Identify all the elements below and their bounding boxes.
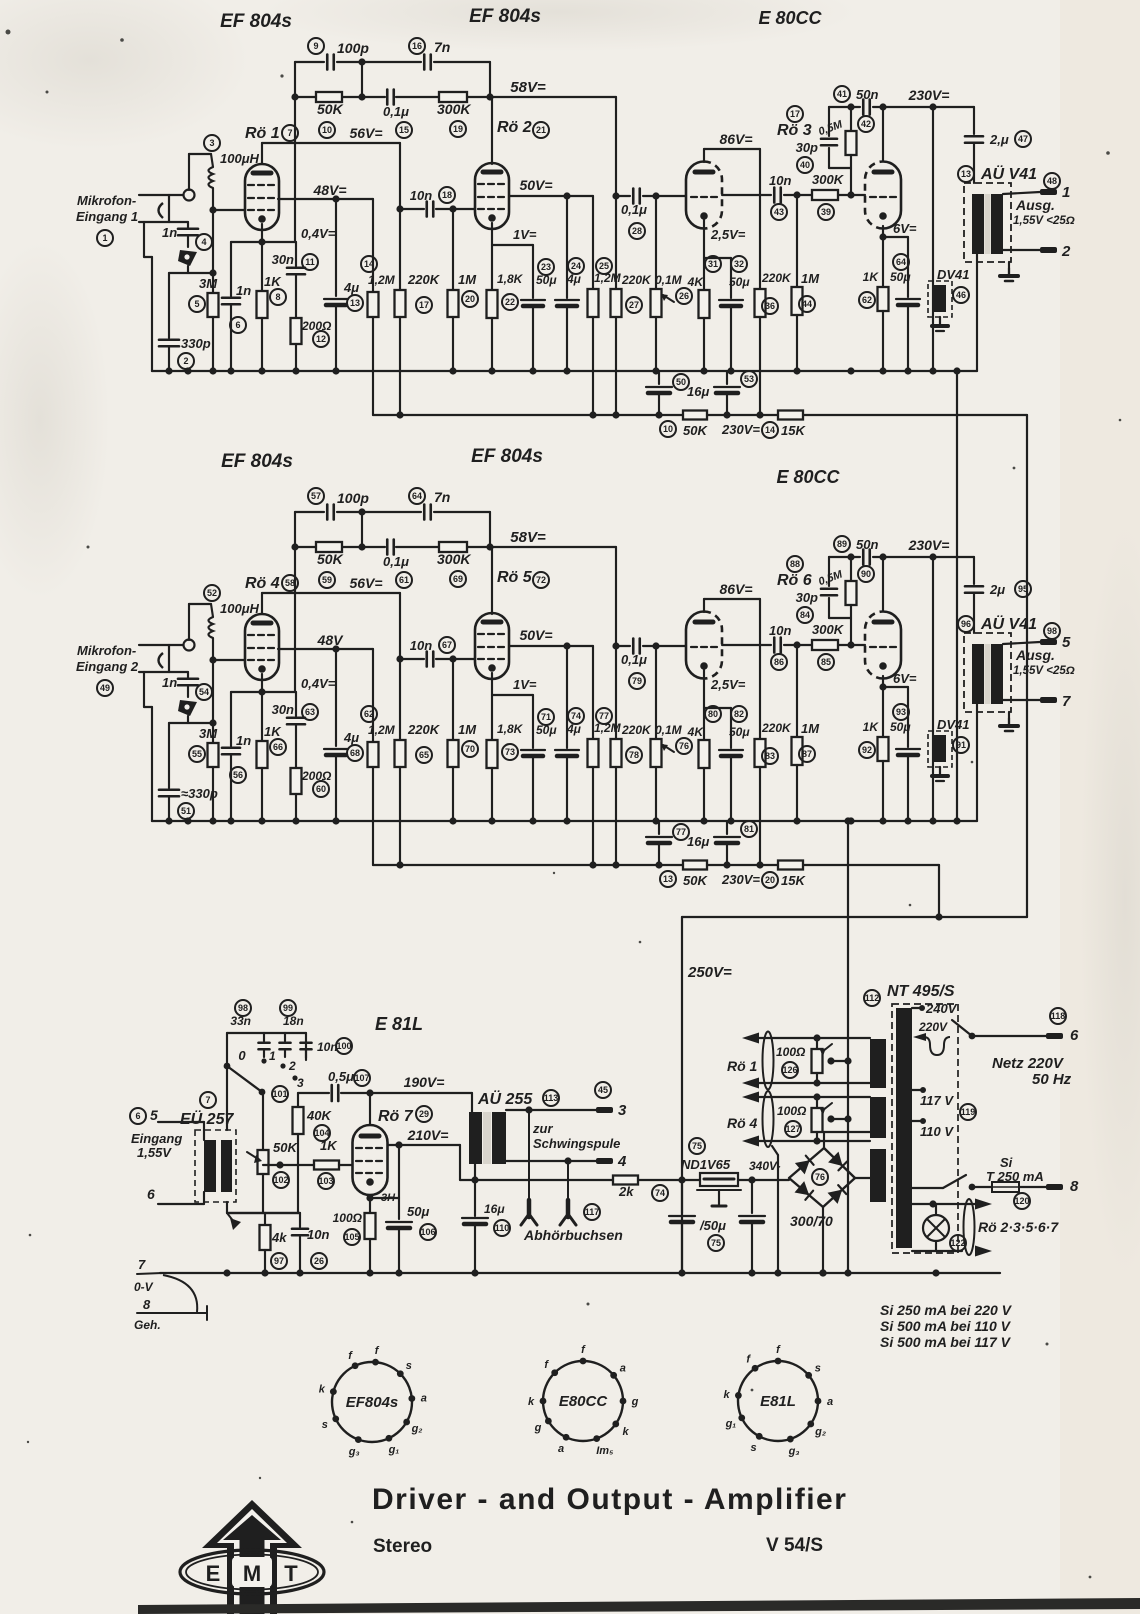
svg-text:117: 117	[585, 1207, 600, 1217]
node 14 circled ch1	[361, 256, 377, 272]
node cathode-b	[879, 233, 886, 240]
svg-text:76: 76	[679, 741, 689, 751]
svg-text:1M: 1M	[458, 722, 477, 737]
svg-text:AÜ V41: AÜ V41	[980, 614, 1037, 633]
svg-text:7: 7	[205, 1095, 210, 1105]
svg-text:48: 48	[1047, 176, 1057, 186]
choke ND1V65	[700, 1173, 738, 1186]
node 13t circled ch2	[958, 616, 974, 632]
node plate 230V	[879, 553, 886, 560]
svg-text:64: 64	[896, 257, 906, 267]
node 4u junction	[563, 642, 570, 649]
svg-text:21: 21	[536, 125, 546, 135]
svg-text:52: 52	[207, 588, 217, 598]
pilot lamp	[923, 1215, 949, 1241]
svg-text:g: g	[631, 1396, 639, 1408]
node 8 circled ch2	[270, 739, 286, 755]
node 1M junction	[449, 205, 456, 212]
capacitor 1n mic ch1	[187, 222, 189, 228]
capacitor 10n interstage Ro3	[722, 194, 771, 196]
wire 230V line ch1	[829, 106, 860, 108]
svg-text:40: 40	[800, 160, 810, 170]
capacitor 50u cathode Ro2	[532, 245, 534, 298]
svg-text:54: 54	[199, 687, 209, 697]
wire 210V line	[388, 1144, 460, 1146]
svg-text:4: 4	[201, 237, 206, 247]
svg-text:Rö 1: Rö 1	[727, 1058, 758, 1074]
svg-text:10n: 10n	[317, 1040, 338, 1054]
resistor 1K cathode Ro1	[257, 291, 268, 318]
node 12 circled ch1	[313, 331, 329, 347]
svg-text:30n: 30n	[272, 252, 294, 267]
transformer AU255 monitor output	[469, 1112, 482, 1164]
capacitor 0.1u feedback ch1	[386, 90, 389, 105]
svg-text:Ausg.: Ausg.	[1015, 197, 1055, 213]
svg-text:89: 89	[837, 539, 847, 549]
svg-text:112: 112	[865, 993, 880, 1003]
wire 190V corner	[471, 1093, 473, 1112]
wire input upper	[158, 1121, 204, 1123]
svg-text:220K: 220K	[407, 272, 441, 287]
label tube Ro6	[787, 556, 803, 572]
resistor 300K feedback ch2	[439, 542, 467, 552]
svg-text:70: 70	[465, 744, 475, 754]
node pot junction	[652, 192, 659, 199]
svg-text:74: 74	[571, 711, 581, 721]
node 40 circled ch2	[797, 607, 813, 623]
node 0.1u tap	[612, 642, 619, 649]
pinout E81L	[738, 1361, 818, 1441]
node 106 circled	[420, 1224, 436, 1240]
wire cathode Ro1	[261, 224, 263, 291]
node 9 circled ch1	[308, 38, 324, 54]
tap 117V	[912, 1089, 923, 1091]
svg-text:M: M	[243, 1561, 261, 1586]
wire cathode first triode Ro6	[703, 670, 705, 740]
svg-text:41: 41	[837, 89, 847, 99]
svg-text:58V=: 58V=	[510, 529, 546, 546]
capacitor 16u smoothing b ch1	[726, 371, 728, 384]
svg-text:2k: 2k	[618, 1184, 634, 1199]
node 1M-b junction	[793, 191, 800, 198]
node 100 circled	[336, 1038, 352, 1054]
resistor 220K ch1 b	[611, 289, 622, 317]
svg-text:100μH: 100μH	[220, 601, 260, 616]
wire mic connector bar ch2	[168, 645, 170, 672]
svg-text:Stereo: Stereo	[373, 1536, 432, 1557]
svg-text:26: 26	[679, 291, 689, 301]
rectifier DV41 ch2	[928, 731, 952, 767]
svg-text:1M: 1M	[458, 272, 477, 287]
svg-text:/50μ: /50μ	[699, 1218, 726, 1233]
logo EMT letters	[232, 1557, 272, 1587]
node 20 circled ch2	[462, 741, 478, 757]
svg-text:220K: 220K	[407, 722, 441, 737]
svg-text:300K: 300K	[437, 101, 471, 117]
svg-text:7: 7	[138, 1257, 146, 1272]
svg-text:Rö 5: Rö 5	[497, 569, 533, 586]
node 6 circled ch1	[230, 317, 246, 333]
logo EMT ellipse	[180, 1550, 324, 1594]
node 13 circled ch2	[347, 745, 363, 761]
svg-text:100p: 100p	[337, 490, 369, 506]
svg-text:300/70: 300/70	[790, 1213, 833, 1229]
svg-text:3: 3	[618, 1102, 627, 1119]
svg-text:30n: 30n	[272, 702, 294, 717]
wire 0.4V line ch2	[231, 691, 296, 693]
svg-text:63: 63	[305, 707, 315, 717]
svg-text:40K: 40K	[306, 1108, 332, 1123]
svg-text:g₂: g₂	[814, 1426, 826, 1438]
wire grid to tube Ro1	[213, 209, 245, 211]
ground arrow EU257	[230, 1218, 241, 1230]
svg-text:27: 27	[629, 300, 639, 310]
capacitor 0.1u coupling ch1	[616, 195, 630, 197]
resistor 220K ch2 a	[395, 740, 406, 767]
resistor 1K grid monitor	[314, 1161, 339, 1170]
svg-text:220K: 220K	[761, 721, 792, 735]
svg-text:39: 39	[821, 207, 831, 217]
node 24 circled ch1	[568, 258, 584, 274]
svg-text:50μ: 50μ	[890, 720, 911, 734]
svg-text:72: 72	[536, 575, 546, 585]
potentiometer 0.1M ch1	[655, 196, 657, 289]
node 113 circled	[960, 1104, 976, 1120]
svg-text:86: 86	[774, 657, 784, 667]
node ground drop top	[844, 817, 851, 824]
capacitor 50u cathode b Ro6	[907, 687, 909, 747]
wire grid chain Ro4	[212, 638, 214, 743]
svg-text:EF 804s: EF 804s	[471, 446, 543, 467]
svg-text:67: 67	[442, 640, 452, 650]
node 44t circled ch1	[1044, 173, 1060, 189]
svg-text:85: 85	[821, 657, 831, 667]
node 3 circled ch2	[204, 585, 220, 601]
svg-text:88: 88	[790, 559, 800, 569]
svg-text:340V-: 340V-	[749, 1159, 781, 1173]
svg-text:1,2M: 1,2M	[368, 723, 396, 737]
node 5 circled ch1	[189, 296, 205, 312]
resistor 1.8K cathode Ro5	[487, 740, 498, 768]
svg-text:118: 118	[1051, 1011, 1066, 1021]
node 26 circled ch1	[676, 288, 692, 304]
resistor 200ohm ch2	[291, 768, 302, 794]
svg-text:69: 69	[453, 574, 463, 584]
wire grid chain Ro1	[212, 188, 214, 293]
svg-text:24: 24	[571, 261, 581, 271]
node grid lower Ro1	[209, 269, 216, 276]
wire secondary out upper AUV41-2	[1003, 642, 1040, 644]
svg-text:47: 47	[1018, 134, 1028, 144]
resistor 50K supply ch1	[683, 411, 707, 420]
resistor 220K ch1 a	[395, 290, 406, 317]
resistor 200ohm ch1	[291, 318, 302, 344]
svg-text:48V=: 48V=	[312, 182, 346, 198]
wire DV41 feed ch2	[932, 557, 934, 821]
svg-text:68: 68	[350, 748, 360, 758]
wire 58V rail ch2	[295, 546, 385, 548]
node 7 circled EU257	[200, 1092, 216, 1108]
svg-text:17: 17	[419, 300, 429, 310]
svg-text:100Ω: 100Ω	[776, 1045, 806, 1059]
heater out arrow top	[975, 1199, 992, 1210]
svg-text:50μ: 50μ	[890, 270, 911, 284]
svg-text:1V=: 1V=	[513, 227, 537, 242]
node 20 circled ch1	[462, 291, 478, 307]
svg-text:E81L: E81L	[760, 1393, 796, 1410]
node 41 circled ch2	[834, 536, 850, 552]
svg-text:0,4V=: 0,4V=	[301, 226, 336, 241]
node 48V junction	[332, 195, 339, 202]
svg-text:56V=: 56V=	[349, 575, 382, 591]
svg-text:NT 495/S: NT 495/S	[887, 983, 955, 1000]
svg-text:50K: 50K	[317, 551, 344, 567]
bus junction dots ch1	[165, 367, 172, 374]
resistor 15K supply ch2	[778, 861, 803, 870]
node 127 circled	[785, 1121, 801, 1137]
svg-text:107: 107	[354, 1073, 369, 1083]
node 13 circled ch1	[347, 295, 363, 311]
svg-text:100: 100	[336, 1041, 351, 1051]
capacitor 50u psu a	[681, 1180, 683, 1213]
svg-text:Rö 2: Rö 2	[497, 119, 532, 136]
wire cathode Ro7	[369, 1195, 371, 1213]
resistor 2k monitor feed	[475, 1179, 613, 1181]
svg-text:50: 50	[676, 377, 686, 387]
wire primary bottom tap	[912, 1187, 943, 1189]
bottom scan bar	[138, 1598, 1140, 1614]
node grid-b	[847, 641, 854, 648]
svg-text:V 54/S: V 54/S	[766, 1535, 823, 1556]
svg-text:76: 76	[815, 1172, 825, 1182]
node 117 circled	[584, 1204, 600, 1220]
wire mic input stub lower ch1	[139, 221, 188, 223]
wire cathode Ro4	[261, 674, 263, 741]
node 1 circled ch1	[97, 230, 113, 246]
node 36 circled ch2	[762, 748, 778, 764]
svg-text:Si 250 mA bei 220 V: Si 250 mA bei 220 V	[880, 1302, 1013, 1318]
svg-text:10n: 10n	[769, 173, 791, 188]
svg-text:98: 98	[1047, 626, 1057, 636]
wire 100p to rail	[361, 62, 363, 97]
node rail junctions	[291, 93, 298, 100]
svg-text:Driver - and Output - Amplifie: Driver - and Output - Amplifier	[372, 1483, 847, 1516]
node 110 circled	[494, 1220, 510, 1236]
heater twisted pair Ro1	[763, 1032, 774, 1090]
svg-text:100Ω: 100Ω	[777, 1104, 807, 1118]
wire plate 86V Ro3	[703, 149, 705, 162]
capacitor 10n switch	[301, 1041, 312, 1044]
wire cathode Ro2	[491, 223, 493, 290]
wire 56V down ch1	[399, 143, 401, 290]
svg-text:6: 6	[1070, 1027, 1079, 1044]
resistor 3M grid leak ch1	[208, 293, 219, 317]
svg-text:220V: 220V	[918, 1020, 948, 1034]
node 27 circled ch1	[626, 297, 642, 313]
capacitor 50n ch2	[862, 550, 865, 565]
node 36 circled ch1	[762, 298, 778, 314]
wire plate Ro7	[369, 1093, 371, 1125]
wire plate Ro4 to 56V	[261, 593, 263, 614]
wire cathode Ro5	[491, 673, 493, 740]
svg-text:1V=: 1V=	[513, 677, 537, 692]
wire plate Ro2	[491, 97, 493, 164]
resistor 1M grid leak b Ro6	[796, 645, 798, 737]
node 12 circled ch2	[313, 781, 329, 797]
svg-text:Rö 2·3·5·6·7: Rö 2·3·5·6·7	[978, 1219, 1059, 1235]
wire cathode second triode Ro3	[882, 226, 884, 287]
svg-text:T 250 mA: T 250 mA	[986, 1169, 1044, 1184]
svg-text:48V: 48V	[317, 632, 345, 648]
svg-text:1,55V: 1,55V	[137, 1145, 172, 1160]
wire ground tie ch1-ch2	[956, 371, 958, 821]
svg-text:EF804s: EF804s	[346, 1394, 399, 1411]
resistor 50K feedback ch2	[316, 542, 342, 552]
potentiometer 0.1M ch2	[655, 646, 657, 739]
svg-text:22: 22	[505, 297, 515, 307]
ground output transformer ch1	[1008, 262, 1010, 276]
resistor 15K supply ch1	[778, 411, 803, 420]
svg-text:101: 101	[272, 1089, 287, 1099]
wire mic connector bar ch1	[168, 195, 170, 222]
node 32 circled ch1	[731, 256, 747, 272]
node 250V junction	[678, 1176, 685, 1183]
svg-text:60: 60	[316, 784, 326, 794]
transformer NT495S secondary 1	[870, 1039, 886, 1088]
heater arrow Ro1 b	[742, 1078, 759, 1089]
resistor 1M grid Ro2	[452, 209, 454, 290]
svg-text:T: T	[284, 1561, 298, 1586]
svg-text:17: 17	[790, 109, 800, 119]
svg-text:50μ: 50μ	[729, 725, 750, 739]
svg-text:6: 6	[147, 1186, 155, 1202]
svg-text:DV41: DV41	[937, 717, 970, 732]
capacitor 33n switch	[263, 1033, 265, 1041]
resistor 1.2M ch1 b	[592, 196, 594, 289]
svg-text:2: 2	[288, 1059, 296, 1073]
node 44 circled ch2	[799, 746, 815, 762]
wire 58V rail ch1	[295, 96, 385, 98]
resistor 1.8K cathode Ro2	[487, 290, 498, 318]
wire cathode first triode Ro3	[703, 220, 705, 290]
node cathode-b	[879, 683, 886, 690]
resistor 300K grid Ro3	[812, 190, 838, 200]
wire 56V down ch2	[399, 593, 401, 740]
svg-text:ND1V65: ND1V65	[681, 1157, 731, 1172]
svg-text:16μ: 16μ	[484, 1202, 505, 1216]
svg-text:74: 74	[655, 1188, 665, 1198]
node 10r circled ch2	[660, 871, 676, 887]
terminal 5 input	[130, 1108, 146, 1124]
resistor 1M grid leak b Ro3	[796, 195, 798, 287]
svg-text:92: 92	[862, 745, 872, 755]
svg-text:4K: 4K	[687, 725, 705, 739]
svg-text:30p: 30p	[796, 140, 818, 155]
node grid-b	[847, 191, 854, 198]
node 18 circled ch1	[439, 187, 455, 203]
node 42 circled ch1	[858, 116, 874, 132]
node 39 circled ch2	[818, 654, 834, 670]
capacitor 2u output ch2	[965, 585, 983, 588]
capacitor 7n feedback ch1	[423, 55, 426, 70]
wire DV41 feed ch1	[932, 107, 934, 371]
svg-text:7: 7	[1062, 693, 1071, 710]
svg-text:14: 14	[765, 425, 775, 435]
rectifier bridge 300/70	[789, 1148, 855, 1207]
node 17 circled ch1	[416, 297, 432, 313]
wire heater out top	[912, 1203, 933, 1205]
capacitor 4u ch1 b	[566, 196, 568, 298]
svg-text:57: 57	[311, 491, 321, 501]
svg-text:300K: 300K	[437, 551, 471, 567]
svg-text:77: 77	[676, 827, 686, 837]
svg-text:10n: 10n	[410, 188, 432, 203]
svg-text:s: s	[406, 1360, 412, 1372]
wire secondary out lower AUV41-1	[1003, 249, 1040, 251]
svg-text:53: 53	[744, 374, 754, 384]
svg-text:240V: 240V	[925, 1001, 958, 1016]
inductor 100uH Ro4 grid stopper	[209, 617, 214, 638]
svg-text:11: 11	[305, 257, 315, 267]
svg-text:6: 6	[135, 1111, 140, 1121]
node 23 circled ch2	[538, 709, 554, 725]
resistor 1K cathode Ro4	[257, 741, 268, 768]
pinout EF804s	[332, 1362, 412, 1442]
svg-text:102: 102	[273, 1175, 288, 1185]
svg-text:200Ω: 200Ω	[301, 319, 332, 333]
node 46 circled ch2	[953, 737, 969, 753]
svg-text:k: k	[723, 1389, 730, 1401]
svg-text:1n: 1n	[236, 733, 251, 748]
jack Abhoer 1	[528, 1110, 530, 1200]
node 120 circled	[1014, 1193, 1030, 1209]
ground output transformer ch2	[1008, 712, 1010, 726]
wire secondary top AU255	[506, 1109, 596, 1111]
node top junction	[358, 58, 365, 65]
svg-text:E: E	[206, 1561, 221, 1586]
node 47 circled ch2	[1015, 581, 1031, 597]
svg-text:EÜ 257: EÜ 257	[180, 1109, 234, 1128]
terminal 4 monitor	[596, 1158, 613, 1164]
switch cap bank top wire	[227, 1032, 306, 1034]
capacitor 4u ch2 b	[566, 646, 568, 748]
node 19 circled ch1	[450, 121, 466, 137]
node 31 circled ch1	[705, 256, 721, 272]
svg-text:g₂: g₂	[411, 1423, 423, 1435]
svg-text:50n: 50n	[856, 87, 878, 102]
svg-text:3M: 3M	[199, 276, 218, 291]
svg-text:86V=: 86V=	[719, 581, 752, 597]
node 50 circled ch1	[673, 374, 689, 390]
bottom bus dots	[223, 1269, 230, 1276]
svg-text:Geh.: Geh.	[134, 1318, 161, 1332]
capacitor 0.1u feedback ch2	[386, 540, 389, 555]
svg-text:2,5V=: 2,5V=	[710, 677, 746, 692]
svg-text:10: 10	[663, 424, 673, 434]
svg-text:E 81L: E 81L	[375, 1014, 423, 1034]
svg-text:15K: 15K	[781, 873, 806, 888]
node 27 circled ch2	[626, 747, 642, 763]
wire top line left ch1	[294, 62, 296, 242]
node 48V junction	[332, 645, 339, 652]
node 28 circled ch2	[629, 673, 645, 689]
wire jack to coil ch1	[188, 154, 190, 190]
resistor 300K grid Ro6	[812, 640, 838, 650]
svg-text:Rö 7: Rö 7	[378, 1108, 414, 1125]
arrow screen connection ch1	[178, 250, 197, 266]
tap 110V	[912, 1120, 923, 1122]
wire plate Ro5	[491, 547, 493, 614]
